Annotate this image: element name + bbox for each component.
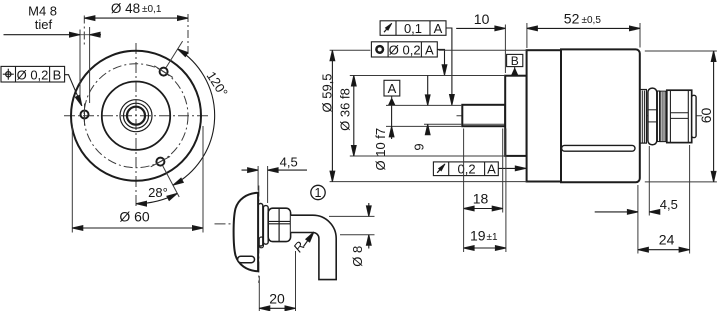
dimension Ø60 flange: [71, 126, 73, 233]
clamp plate: [258, 204, 262, 247]
svg-text:60: 60: [698, 108, 714, 124]
extension line shaft bottom: [386, 125, 461, 127]
cable: [291, 215, 336, 279]
plate slot: [259, 237, 263, 248]
housing slot: [562, 145, 635, 151]
extension line shaft flat: [424, 123, 461, 125]
leader of concentricity frame: [437, 49, 444, 75]
svg-text:tief: tief: [35, 17, 53, 32]
svg-text:A: A: [487, 161, 496, 176]
mounting hole B (left): [81, 111, 89, 119]
svg-text:A: A: [388, 81, 397, 96]
dimension Ø59,5: [331, 50, 333, 181]
boss Ø36 f8: [505, 76, 526, 156]
svg-text:52: 52: [564, 11, 580, 27]
hub circle outer: [120, 100, 152, 132]
gland nut: [268, 208, 290, 241]
dimension 4,5 rear: [637, 185, 639, 254]
mounting hole C (upper right): [160, 68, 168, 76]
dimension 20: [258, 276, 260, 311]
hub circle middle: [124, 103, 149, 128]
dimension 52±0,5 housing length: [526, 23, 528, 48]
dimension 19±1: [464, 247, 506, 249]
leader of runout frame: [446, 28, 452, 105]
centerline vertical: [135, 43, 137, 206]
position tolerance frame Ø0,2 B: [1, 66, 65, 82]
shaft bore circle: [127, 107, 145, 125]
svg-text:R: R: [290, 238, 308, 255]
flange ring Ø59,5: [527, 50, 561, 181]
svg-text:±0,1: ±0,1: [142, 4, 162, 15]
recess circle: [102, 82, 170, 150]
runout frame 0,1 A: [380, 21, 446, 36]
extension line boss top: [350, 75, 505, 77]
dimension Ø10 f7: [391, 105, 393, 126]
dimension Ø36 f8: [353, 76, 355, 157]
svg-text:B: B: [511, 54, 519, 68]
extension line shaft top: [386, 104, 461, 106]
extension line boss bottom: [350, 155, 505, 157]
centerline horizontal: [215, 223, 317, 225]
svg-text:0,1: 0,1: [404, 21, 422, 36]
shaft Ø10 f7: [462, 105, 505, 126]
dimension 10 boss width: [504, 25, 506, 74]
dimension 24 connector: [689, 145, 691, 254]
centerline horizontal: [64, 115, 208, 117]
connector spacer ring: [657, 91, 659, 142]
svg-text:9: 9: [412, 143, 427, 150]
shaft flat: [463, 123, 505, 125]
svg-text:Ø 8: Ø 8: [350, 246, 365, 267]
dimension Ø8 cable: [329, 215, 375, 217]
svg-text:10: 10: [474, 11, 490, 27]
leader of runout frame 0,2: [498, 167, 526, 169]
svg-text:20: 20: [269, 290, 285, 306]
concentricity frame Ø0,2 A: [371, 42, 437, 57]
connector hex capsule: [648, 88, 657, 145]
svg-text:Ø 0,2: Ø 0,2: [17, 67, 49, 82]
gland nub: [291, 217, 295, 227]
datum A: [384, 80, 400, 96]
leader to hole B: [65, 75, 82, 106]
dimension 4,5 cable clamp: [257, 166, 259, 191]
bolt circle: [84, 64, 188, 168]
dimension 9 shaft flat: [427, 76, 429, 106]
svg-text:±0,5: ±0,5: [582, 15, 602, 26]
item number 1: [311, 185, 325, 199]
centerline vertical: [258, 186, 260, 284]
svg-text:Ø 59,5: Ø 59,5: [320, 73, 335, 112]
runout frame 0,2 A: [433, 162, 498, 176]
extension line ring top: [330, 49, 371, 51]
svg-text:B: B: [53, 67, 62, 82]
housing Ø60: [561, 49, 640, 182]
dimension 60 housing diameter: [645, 50, 717, 52]
mounting hole A (lower right): [156, 158, 164, 166]
extension line ring bottom: [330, 181, 527, 183]
svg-text:Ø 36 f8: Ø 36 f8: [337, 88, 352, 131]
flange outer circle: [71, 51, 201, 181]
connector thread: [660, 91, 666, 141]
centerline: [457, 115, 703, 117]
extension lines shaft length dims: [463, 129, 465, 253]
dimension 28 degrees: [136, 193, 177, 203]
dimension 120 degrees: [166, 41, 182, 67]
svg-text:Ø 48: Ø 48: [111, 1, 140, 16]
connector coupling nut M23: [667, 90, 692, 142]
dimension Ø48 bolt circle: [83, 16, 85, 47]
svg-text:24: 24: [659, 232, 675, 248]
svg-text:19: 19: [470, 228, 486, 244]
svg-text:28°: 28°: [148, 185, 168, 200]
svg-text:4,5: 4,5: [660, 197, 678, 212]
svg-text:±1: ±1: [487, 232, 498, 243]
encoder body rear silhouette: [234, 193, 259, 271]
connector washer stack: [640, 90, 646, 144]
datum B: [507, 54, 523, 66]
svg-text:Ø 10 f7: Ø 10 f7: [373, 128, 388, 171]
gland ring: [263, 206, 268, 245]
svg-text:0,2: 0,2: [458, 161, 476, 176]
svg-text:Ø 0,2: Ø 0,2: [389, 42, 421, 57]
body slot: [238, 256, 255, 263]
svg-text:1: 1: [315, 186, 322, 200]
svg-text:18: 18: [473, 191, 489, 207]
dimension 18: [464, 208, 503, 210]
svg-text:4,5: 4,5: [280, 155, 298, 170]
connector tip: [692, 95, 696, 137]
svg-text:A: A: [434, 21, 443, 36]
bend radius leader R: [304, 232, 314, 247]
svg-text:A: A: [425, 42, 434, 57]
svg-text:Ø 60: Ø 60: [119, 209, 150, 225]
